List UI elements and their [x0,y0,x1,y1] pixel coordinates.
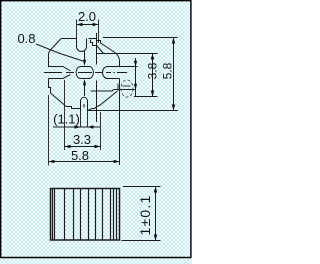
dimension 2.0 left extension line [76,20,78,39]
dimension 5.8 bottom dimension line [49,161,120,163]
wire end tick [117,84,119,91]
svg-text:5.8: 5.8 [71,148,89,163]
bottom slot width dimension line [53,126,101,128]
svg-text:3.8: 3.8 [145,62,159,79]
extension line for 5.8 top [103,37,178,39]
flange right edge lower and extension to 5.8 dim [119,79,121,166]
wire loop center dash [83,104,85,108]
extension line for 3.8 bottom [134,96,158,98]
dimension 3.8 text (rotated) [145,62,159,79]
dimension 5.8 bottom right arrow [114,160,120,164]
border frame [0,1,192,258]
bottom slot width left arrow [75,125,81,128]
dimension 3.8 top arrow [151,54,155,60]
dimension 3.8 dimension line [152,54,154,97]
flange top edge left segment [61,38,77,40]
dimension 5.8 bottom text [71,148,89,163]
bottom slot width extension line left [80,111,82,128]
winding end marker circle [121,80,133,97]
dimension 5.8 bottom left extension line [48,95,50,166]
svg-text:0.8: 0.8 [17,31,35,46]
vertical center line lower [96,81,98,123]
stadium height dim upper arrow [83,60,86,66]
bottom slot width extension line right [87,111,89,128]
dimension 3.8 bottom arrow [151,91,155,97]
right mini dim arrow lower [134,84,137,90]
wire lead staircase to center [91,40,97,46]
side view flange lines right [114,189,117,241]
flange bottom edge left segments [66,107,81,109]
stadium height dim lower arrow [83,79,86,85]
feature line y=53.5 and extension to 3.8 dim [97,53,158,55]
dimension 2.0 right extension line [98,20,100,44]
winding end marker inner bar [123,85,131,87]
dimension 5.8 bottom left arrow [49,160,55,164]
side view flange lines left [53,189,55,241]
dimension 1±0.1 top extension line [123,186,161,188]
svg-text:1±0.1: 1±0.1 [137,195,153,236]
flange bottom edge and extension line to 5.8 dim [88,110,179,112]
dimension 2.0 right arrow [93,23,99,27]
top edge inner segment over wire [89,38,97,40]
label 0.8 leader line [36,44,83,61]
wire loop at bottom slot [81,97,88,110]
vertical center line upper [96,33,98,65]
dimension 3.3 text [73,132,91,147]
dimension 3.3 right extension line [100,112,102,150]
dimension 1±0.1 bottom extension line [122,240,161,242]
dimension 2.0 dimension line [77,24,99,26]
svg-text:3.3: 3.3 [73,132,91,147]
dimension 5.8 right dimension line [173,38,175,111]
dimension 3.3 dimension line [65,146,101,148]
svg-text:(1.1): (1.1) [53,112,80,127]
right mini dim arrow upper [134,61,137,67]
flange bottom-left corner arc [51,93,67,107]
wire lead squiggle at bottom right [89,91,118,110]
dimension 1±0.1 text (rotated) [137,195,153,236]
dimension 1±0.1 bottom arrow [154,235,158,241]
dimension 1±0.1 top arrow [154,187,158,193]
left notch top edge [49,67,71,72]
stadium height dim line upper [84,51,86,60]
wire lead diagonal to center line [97,46,104,54]
stadium right bottom edge [108,78,120,80]
dimension 3.3 left extension line [64,80,66,150]
flange left edge upper [48,54,50,67]
label (1.1) text [53,112,80,127]
horizontal center line (dash-dot) [44,72,127,74]
flange left edge lower [49,79,51,94]
flange top-left corner arc [49,39,62,55]
right mini dimension line [135,58,137,96]
wire U at top slot [77,38,87,52]
dimension 2.0 text [78,9,96,24]
central stadium left [76,67,93,79]
stadium right top edge and extension to mini dim [108,66,138,68]
background lattice [0,0,192,264]
dimension 5.8 right top arrow [172,38,176,44]
dimension 3.3 right arrow [95,145,101,149]
left notch bottom edge [49,75,71,79]
dimension 3.3 left arrow [65,145,71,149]
central stadium right left arc [103,67,108,79]
svg-text:2.0: 2.0 [78,9,96,24]
label 0.8 text [17,31,35,46]
side view winding turn lines [65,189,111,241]
side view body rectangle [51,189,120,241]
svg-text:5.8: 5.8 [161,62,175,79]
stadium height dim line lower [84,85,86,96]
bottom slot width right arrow [88,125,94,128]
top-right staircase and corner arc [97,39,120,67]
dimension 5.8 right text (rotated) [161,62,175,79]
feature line y=90.5 to mini dim [91,90,136,92]
dimension 5.8 right bottom arrow [172,105,176,111]
dimension 2.0 left arrow [77,23,83,27]
dimension 1±0.1 dimension line [155,187,157,241]
